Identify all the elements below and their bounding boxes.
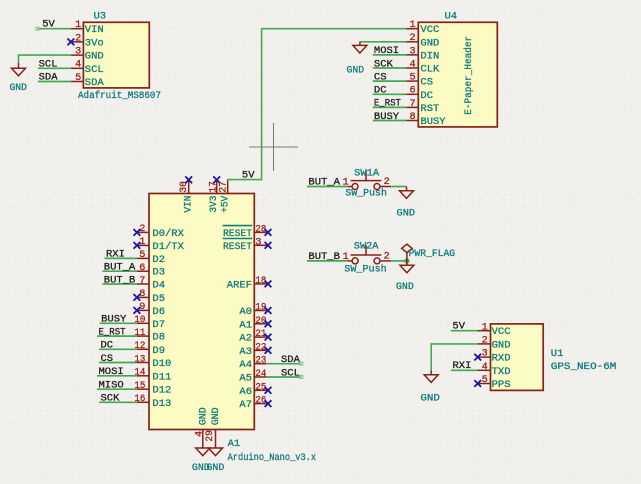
A1 pin 7 D4 (137, 283, 149, 285)
wire SCK to U4 (373, 67, 406, 69)
svg-text:GND: GND (197, 407, 209, 425)
svg-text:D1/TX: D1/TX (152, 241, 184, 253)
svg-text:BUT_A: BUT_A (308, 177, 340, 189)
svg-text:2: 2 (384, 177, 390, 188)
no-connect X on pin 30 (185, 176, 192, 183)
svg-text:D10: D10 (152, 358, 171, 370)
svg-text:U1: U1 (551, 348, 564, 360)
A1 pin 23 A4 (254, 363, 266, 365)
svg-text:A6: A6 (239, 386, 252, 398)
cursor crosshair (249, 146, 298, 148)
svg-text:RST: RST (420, 103, 439, 115)
svg-text:AREF: AREF (227, 279, 252, 291)
wire SW2A pin 2 to node (391, 260, 407, 262)
svg-text:D3: D3 (152, 267, 165, 279)
switch SW2A SW_Push (348, 260, 352, 262)
wire DC to A1 (99, 348, 137, 350)
svg-text:RXD: RXD (492, 353, 511, 365)
svg-text:GND: GND (420, 393, 440, 405)
svg-text:1: 1 (409, 20, 415, 31)
svg-text:RESET: RESET (223, 241, 252, 253)
svg-text:VIN: VIN (85, 24, 104, 36)
U1 pin 4 TXD (478, 369, 491, 371)
no-connect X on pin 26 (265, 400, 272, 407)
svg-text:30: 30 (179, 181, 190, 193)
svg-text:16: 16 (134, 394, 145, 405)
A1 pin 22 A3 (254, 349, 266, 351)
A1 pin 4 GND (bottom) (202, 430, 204, 443)
svg-text:A1: A1 (228, 438, 241, 450)
A1 pin 28 RESET (254, 231, 266, 233)
wire SCL from A1 (267, 376, 301, 378)
A1 pin 11 D8 (137, 335, 149, 337)
wire 5V to U1 VCC (451, 330, 478, 332)
A1 pin 18 AREF (254, 283, 266, 285)
svg-text:RXI: RXI (453, 360, 472, 372)
U4 pin 8 BUSY (406, 120, 418, 122)
svg-text:D9: D9 (152, 345, 165, 357)
no-connect X on U1 pin 5 (474, 380, 481, 387)
svg-text:GND: GND (396, 281, 414, 293)
svg-text:CS: CS (101, 353, 114, 365)
wire MISO to A1 (97, 388, 137, 390)
U4 pin 5 CS (406, 80, 418, 82)
svg-text:Arduino_Nano_v3.x: Arduino_Nano_v3.x (228, 452, 317, 464)
svg-text:4: 4 (75, 60, 81, 71)
switch SW1A SW_Push (348, 186, 352, 188)
wire 5V to U3 VIN (38, 28, 71, 30)
svg-text:3: 3 (482, 349, 488, 360)
ground symbol at U3 (12, 63, 26, 76)
svg-text:SW1A: SW1A (354, 167, 380, 179)
IC U1 GPS_NEO-6M (491, 324, 544, 391)
wire 5V net: U4 VCC to Arduino +5V (228, 29, 406, 181)
svg-text:PWR_FLAG: PWR_FLAG (409, 248, 456, 260)
svg-text:BUSY: BUSY (420, 116, 446, 128)
svg-text:CS: CS (374, 71, 387, 83)
svg-text:D6: D6 (152, 306, 165, 318)
svg-text:D0/RX: D0/RX (152, 228, 184, 240)
svg-text:A1: A1 (239, 319, 252, 331)
svg-text:E-Paper_Header: E-Paper_Header (463, 36, 475, 115)
U3 pin 5 SDA (71, 81, 84, 83)
svg-text:5: 5 (139, 250, 145, 261)
svg-text:D2: D2 (152, 254, 165, 266)
no-connect X on pin 3 (265, 242, 272, 249)
svg-text:+5V: +5V (220, 195, 232, 213)
wire BUT_B to SW2A pin 1 (307, 260, 348, 262)
wire BUT_A to SW1A pin 1 (307, 186, 348, 188)
svg-text:4: 4 (409, 59, 415, 70)
svg-text:A7: A7 (239, 399, 252, 411)
U3 pin 3 GND (71, 54, 84, 56)
svg-text:E_RST: E_RST (99, 326, 126, 338)
svg-text:D8: D8 (152, 332, 165, 344)
svg-text:SW_Push: SW_Push (345, 187, 387, 199)
svg-text:12: 12 (134, 341, 145, 352)
no-connect X on pin 22 (265, 347, 272, 354)
svg-text:1: 1 (482, 322, 488, 333)
no-connect X on pin 19 (265, 307, 272, 314)
svg-text:SDA: SDA (39, 72, 59, 84)
no-connect X on U1 pin 3 (474, 354, 481, 361)
svg-text:5: 5 (409, 73, 415, 84)
U3 pin 4 SCL (71, 67, 84, 69)
no-connect X on pin 8 (134, 294, 141, 301)
svg-text:15: 15 (134, 381, 145, 392)
svg-text:SW2A: SW2A (354, 240, 379, 252)
svg-text:2: 2 (384, 251, 390, 262)
no-connect X on pin 17 (213, 176, 220, 183)
svg-text:3: 3 (409, 46, 415, 57)
IC U3 Adafruit_MS8607 (83, 22, 149, 88)
wire MOSI to A1 (97, 375, 137, 377)
svg-text:SCL: SCL (39, 59, 58, 71)
A1 pin 26 A7 (254, 403, 266, 405)
svg-text:2: 2 (482, 336, 488, 347)
U1 pin 5 PPS (478, 383, 491, 385)
ground symbol at SW1A (400, 187, 414, 199)
wire BUSY to A1 (100, 322, 137, 324)
A1 pin 20 A1 (254, 323, 266, 325)
svg-text:11: 11 (134, 328, 145, 339)
wire E_RST to A1 (97, 335, 137, 337)
svg-text:GND: GND (210, 407, 222, 425)
no-connect X on pin 9 (134, 307, 141, 314)
svg-text:SCK: SCK (374, 58, 394, 70)
wire RXI to A1 (105, 257, 137, 259)
U4 pin 1 VCC (406, 28, 418, 30)
wire CS to A1 (99, 362, 137, 364)
svg-text:GND: GND (492, 339, 511, 351)
wire U3 GND pin to ground (19, 55, 71, 63)
junction node (404, 258, 409, 263)
svg-text:A2: A2 (239, 333, 252, 345)
svg-text:MOSI: MOSI (374, 45, 399, 57)
no-connect X on pin 21 (265, 334, 272, 341)
no-connect X on pin 1 (134, 242, 141, 249)
no-connect X on pin 18 (265, 281, 272, 288)
svg-text:GND: GND (347, 64, 365, 76)
svg-text:GND: GND (420, 37, 439, 49)
U4 pin 4 CLK (406, 67, 418, 69)
svg-text:PPS: PPS (492, 379, 511, 391)
A1 pin 12 D9 (137, 348, 149, 350)
wire SW1A pin 2 to ground (391, 186, 406, 188)
svg-text:5V: 5V (42, 18, 55, 30)
svg-text:27: 27 (219, 181, 230, 193)
A1 pin 24 A5 (254, 376, 266, 378)
svg-text:MOSI: MOSI (99, 366, 124, 378)
svg-text:GND: GND (207, 462, 225, 474)
svg-text:3: 3 (75, 47, 81, 58)
U1 pin 2 GND (478, 343, 491, 345)
svg-text:SDA: SDA (281, 354, 301, 366)
svg-text:8: 8 (409, 112, 415, 123)
wire BUT_B to A1 (102, 283, 136, 285)
A1 pin 29 GND (bottom) (215, 430, 217, 443)
svg-text:6: 6 (139, 263, 145, 274)
svg-text:BUT_B: BUT_B (104, 274, 136, 286)
wire SDA to U3 pin 5 (38, 81, 71, 83)
A1 pin 8 D5 (137, 296, 149, 298)
svg-text:DC: DC (420, 90, 433, 102)
svg-text:GND: GND (9, 82, 27, 94)
svg-text:D13: D13 (152, 398, 171, 410)
svg-text:5: 5 (75, 73, 81, 84)
svg-text:1: 1 (343, 252, 349, 263)
power flag PWR_FLAG (402, 244, 413, 261)
svg-text:3: 3 (255, 237, 261, 248)
IC U4 E-Paper_Header (418, 22, 497, 127)
no-connect X on pin 20 (265, 320, 272, 327)
svg-text:Adafruit_MS8607: Adafruit_MS8607 (78, 90, 161, 102)
svg-text:A3: A3 (239, 346, 252, 358)
wire E_RST to U4 (373, 106, 406, 108)
A1 pin 27 +5V (top) (227, 181, 229, 194)
wire SDA from A1 (267, 363, 301, 365)
no-connect X on pin 28 (265, 229, 272, 236)
svg-text:TXD: TXD (492, 366, 511, 378)
svg-text:13: 13 (134, 354, 145, 365)
A1 pin 17 3V3 (top) (216, 181, 218, 194)
svg-text:3Vo: 3Vo (85, 37, 104, 49)
svg-text:5V: 5V (242, 170, 255, 182)
A1 pin 14 D11 (137, 375, 149, 377)
A1 pin 1 D1/TX (137, 244, 149, 246)
A1 pin 21 A2 (254, 336, 266, 338)
svg-text:14: 14 (134, 368, 145, 379)
ground symbol at U1 (424, 371, 438, 383)
svg-text:2: 2 (409, 33, 415, 44)
svg-text:SDA: SDA (85, 77, 105, 89)
svg-text:BUT_B: BUT_B (308, 251, 340, 263)
A1 pin 9 D6 (137, 309, 149, 311)
svg-text:SW_Push: SW_Push (344, 264, 386, 276)
svg-text:VCC: VCC (420, 24, 439, 36)
A1 pin 25 A6 (254, 389, 266, 391)
svg-text:D12: D12 (152, 385, 171, 397)
wire BUSY to U4 (373, 120, 406, 122)
svg-text:10: 10 (134, 315, 145, 326)
svg-text:CS: CS (420, 77, 433, 89)
wire BUT_A to A1 (102, 270, 136, 272)
svg-text:DC: DC (374, 85, 387, 97)
wire DC to U4 (373, 93, 406, 95)
svg-text:GPS_NEO-6M: GPS_NEO-6M (551, 361, 617, 373)
ground symbol at SW2A node (400, 261, 414, 273)
svg-text:MISO: MISO (99, 380, 124, 392)
svg-text:CLK: CLK (420, 64, 440, 76)
A1 pin 16 D13 (137, 401, 149, 403)
svg-text:GND: GND (397, 207, 416, 219)
svg-text:A0: A0 (239, 306, 252, 318)
svg-text:BUT_A: BUT_A (104, 262, 136, 274)
A1 pin 6 D3 (137, 270, 149, 272)
svg-text:DIN: DIN (420, 50, 439, 62)
svg-text:D4: D4 (152, 280, 165, 292)
svg-text:4: 4 (482, 362, 488, 373)
svg-text:7: 7 (139, 276, 145, 287)
wire U4 GND pin to ground (360, 41, 406, 43)
wire SCK to A1 (99, 401, 137, 403)
U4 pin 3 DIN (406, 54, 418, 56)
svg-text:RXI: RXI (106, 249, 125, 261)
svg-text:SCL: SCL (85, 64, 104, 76)
A1 pin 3 RESET (254, 244, 266, 246)
svg-text:D11: D11 (152, 371, 171, 383)
U4 pin 7 RST (406, 106, 418, 108)
svg-text:GND: GND (85, 51, 104, 63)
svg-text:2: 2 (75, 33, 81, 44)
A1 pin 10 D7 (137, 322, 149, 324)
ground symbol at A1 pin 29 (209, 442, 223, 455)
svg-text:VCC: VCC (492, 326, 511, 338)
svg-text:4: 4 (194, 431, 205, 437)
no-connect X on pin 25 (265, 387, 272, 394)
IC A1 Arduino_Nano_v3.x (149, 194, 254, 430)
A1 pin 19 A0 (254, 310, 266, 312)
no-connect X on pin 2 (134, 229, 141, 236)
ground symbol at A1 pin 4 (196, 442, 210, 455)
svg-text:5: 5 (482, 375, 488, 386)
A1 pin 2 D0/RX (137, 231, 149, 233)
wire MOSI to U4 (373, 54, 406, 56)
U1 pin 3 RXD (478, 356, 491, 358)
svg-text:24: 24 (255, 369, 266, 380)
no-connect X on U3 pin 2 (68, 39, 75, 46)
U3 pin 2 3Vo (71, 41, 84, 43)
wire RXI to U1 TXD (451, 369, 478, 371)
A1 pin 5 D2 (137, 257, 149, 259)
wire SCL to U3 pin 4 (38, 67, 71, 69)
svg-text:3V3: 3V3 (208, 196, 220, 213)
U1 pin 1 VCC (478, 330, 491, 332)
svg-text:29: 29 (205, 430, 216, 442)
svg-text:5V: 5V (452, 320, 465, 332)
U4 pin 2 GND (406, 41, 418, 43)
wire U1 GND pin to ground (431, 344, 478, 371)
svg-text:DC: DC (101, 340, 114, 352)
svg-text:D7: D7 (152, 319, 165, 331)
svg-text:BUSY: BUSY (374, 111, 400, 123)
U3 pin 1 VIN (71, 28, 84, 30)
A1 pin 30 VIN (top) (188, 181, 190, 194)
svg-text:1: 1 (75, 20, 81, 31)
svg-text:7: 7 (409, 99, 415, 110)
svg-text:SCK: SCK (101, 393, 121, 405)
svg-text:6: 6 (409, 86, 415, 97)
svg-text:SCL: SCL (281, 367, 300, 379)
svg-text:E_RST: E_RST (374, 98, 401, 110)
svg-text:VIN: VIN (183, 196, 195, 213)
wire CS to U4 (373, 80, 406, 82)
svg-text:A5: A5 (239, 373, 252, 385)
svg-text:BUSY: BUSY (101, 314, 127, 326)
A1 pin 13 D10 (137, 362, 149, 364)
svg-text:A4: A4 (239, 359, 252, 371)
U4 pin 6 DC (406, 93, 418, 95)
svg-text:D5: D5 (152, 293, 165, 305)
svg-text:U4: U4 (445, 11, 458, 23)
ground symbol at U4 (353, 42, 367, 53)
svg-text:23: 23 (255, 356, 266, 367)
svg-text:U3: U3 (94, 10, 107, 22)
A1 pin 15 D12 (137, 388, 149, 390)
